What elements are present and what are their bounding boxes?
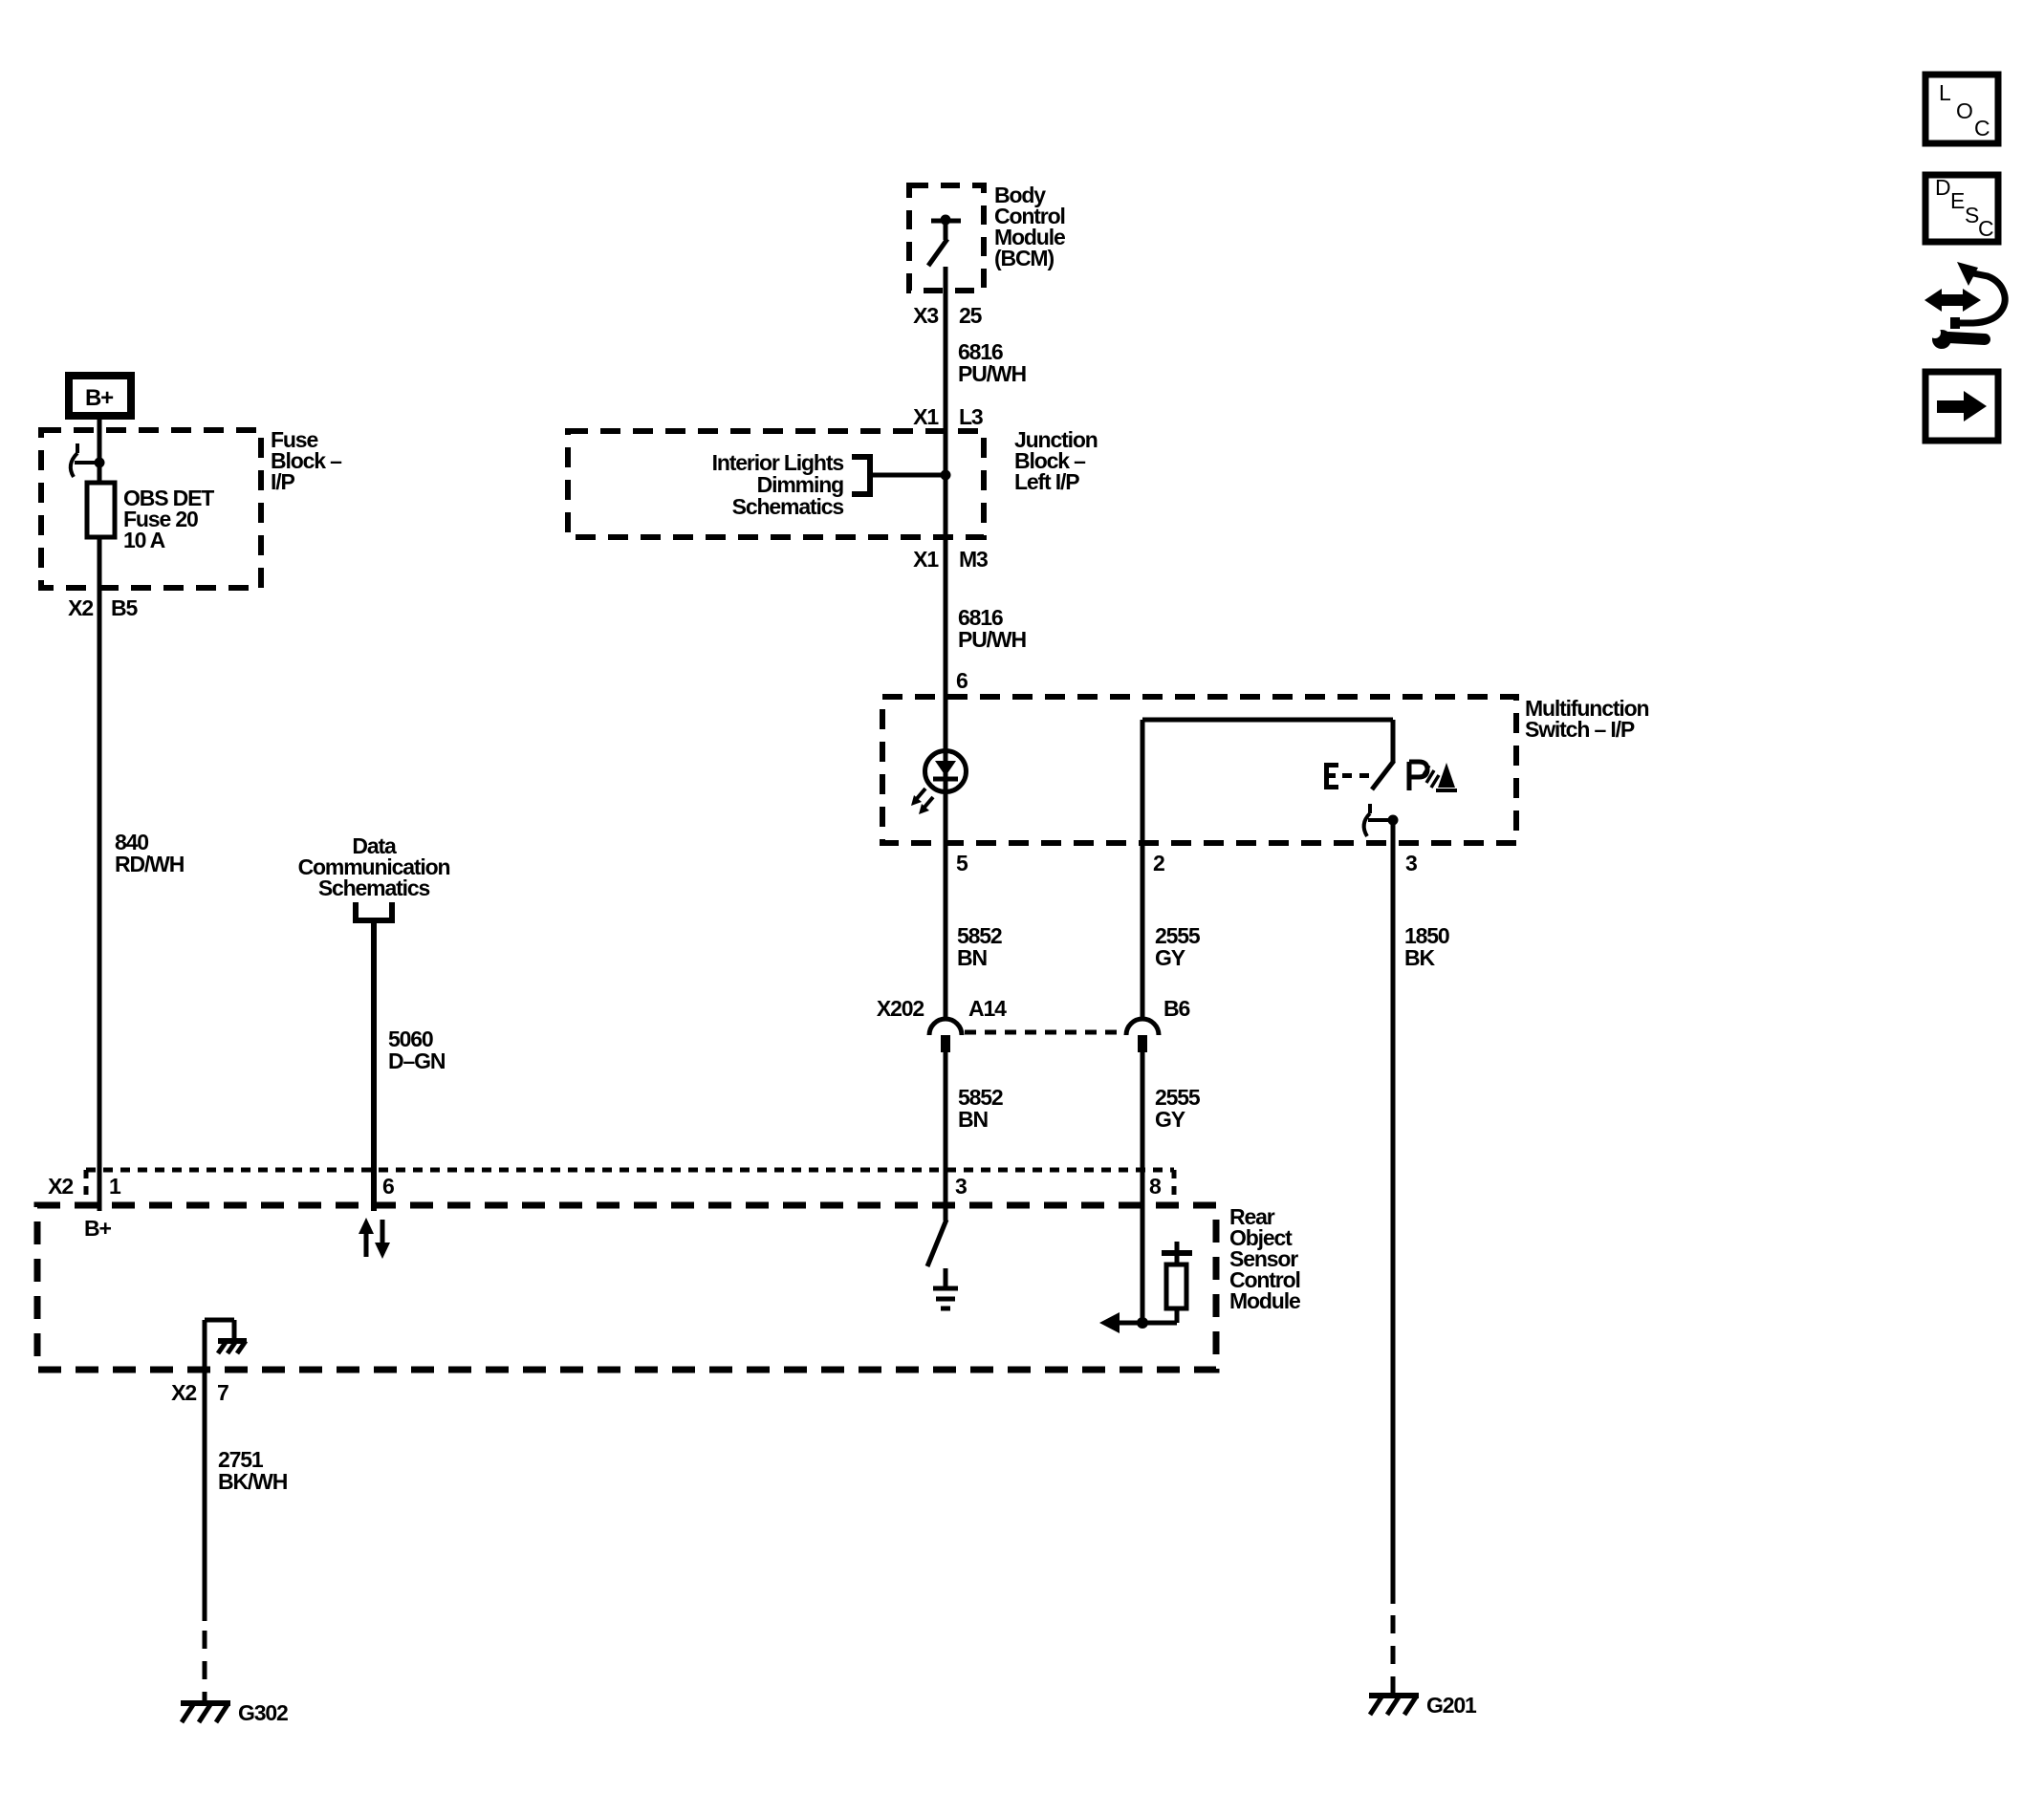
svg-text:B+: B+ bbox=[85, 385, 114, 411]
DESC icon box bbox=[1925, 175, 1998, 242]
wire 5852 BN upper bbox=[957, 923, 1002, 970]
svg-text:Schematics: Schematics bbox=[318, 875, 430, 900]
svg-text:Module: Module bbox=[1229, 1288, 1300, 1313]
svg-text:3: 3 bbox=[1405, 851, 1417, 875]
fuse block I/P dashed box bbox=[41, 427, 342, 588]
svg-text:PU/WH: PU/WH bbox=[958, 627, 1026, 652]
svg-text:5: 5 bbox=[956, 851, 968, 875]
wire 6816 PU/WH (junction block to multifunction switch) bbox=[958, 605, 1026, 652]
LED indicator inside multifunction switch bbox=[911, 751, 967, 815]
svg-text:X1: X1 bbox=[913, 404, 939, 429]
svg-text:BK: BK bbox=[1404, 945, 1435, 970]
ground G302 bbox=[181, 1700, 288, 1725]
svg-text:1: 1 bbox=[109, 1174, 121, 1199]
svg-text:BN: BN bbox=[958, 1107, 988, 1132]
multifunction switch I/P dashed box bbox=[882, 696, 1648, 843]
internal switch wiring of multifunction switch bbox=[1142, 720, 1393, 1019]
svg-text:A14: A14 bbox=[968, 996, 1007, 1021]
svg-text:B+: B+ bbox=[84, 1216, 111, 1241]
wire 2751 BK/WH bbox=[205, 1320, 288, 1621]
switch blade (park assist on/off) bbox=[1372, 761, 1394, 789]
LOC icon box bbox=[1925, 75, 1998, 143]
park assist P icon with sound waves and cone bbox=[1409, 762, 1457, 790]
svg-text:M3: M3 bbox=[959, 547, 988, 572]
svg-text:8: 8 bbox=[1149, 1174, 1162, 1199]
wrench icon bbox=[1929, 327, 1985, 349]
svg-text:Switch – I/P: Switch – I/P bbox=[1525, 717, 1635, 742]
svg-text:X3: X3 bbox=[913, 303, 938, 328]
switch fixed contact terminal bbox=[1364, 804, 1399, 836]
connector label X2 7 bbox=[171, 1380, 228, 1405]
svg-text:L3: L3 bbox=[959, 404, 983, 429]
switch E position label and dashes bbox=[1324, 763, 1369, 789]
svg-text:GY: GY bbox=[1155, 945, 1185, 970]
in-line connector X202 cavity A14 bbox=[929, 1019, 962, 1052]
svg-text:PU/WH: PU/WH bbox=[958, 361, 1026, 386]
svg-text:25: 25 bbox=[959, 303, 983, 328]
svg-text:6: 6 bbox=[956, 668, 968, 693]
svg-text:B5: B5 bbox=[111, 595, 138, 620]
wire from B+ to fuse bbox=[98, 420, 102, 483]
svg-text:I/P: I/P bbox=[271, 469, 294, 494]
connector X202 labels bbox=[877, 996, 1190, 1021]
svg-text:C: C bbox=[1978, 216, 1993, 241]
wire 2555 GY upper bbox=[1155, 923, 1201, 970]
chassis ground symbol inside rear module bbox=[205, 1320, 247, 1353]
connector label X2 B5 bbox=[68, 595, 138, 620]
svg-text:X2: X2 bbox=[171, 1380, 196, 1405]
svg-text:O: O bbox=[1956, 98, 1972, 123]
svg-text:E: E bbox=[1950, 188, 1965, 213]
data exchange icon double arrow bbox=[1924, 289, 1981, 312]
svg-text:G201: G201 bbox=[1426, 1693, 1477, 1718]
earth ground symbol inside rear module bbox=[933, 1288, 958, 1308]
rear object sensor control module dashed box bbox=[37, 1204, 1300, 1370]
svg-text:Schematics: Schematics bbox=[732, 494, 844, 519]
ground G201 bbox=[1369, 1693, 1477, 1718]
wire 840 RD/WH bbox=[99, 537, 185, 1211]
pin labels X3 25 bbox=[913, 303, 982, 328]
svg-text:B6: B6 bbox=[1163, 996, 1189, 1021]
svg-text:BN: BN bbox=[957, 945, 987, 970]
in-line connector X202 cavity B6 bbox=[1126, 1019, 1159, 1052]
data communication arrows at pin 6 bbox=[359, 1218, 390, 1259]
svg-text:L: L bbox=[1939, 80, 1951, 105]
pin labels X1 L3 bbox=[913, 404, 983, 429]
svg-text:C: C bbox=[1974, 116, 1990, 140]
dashed tie line between connector cavities bbox=[965, 1030, 1123, 1035]
interior lights dimming schematics reference bbox=[712, 450, 951, 519]
junction block left I/P dashed box bbox=[568, 427, 1098, 537]
wire 6816 PU/WH (BCM to junction block) bbox=[946, 267, 1026, 1019]
wire 5060 D-GN bbox=[374, 920, 446, 1211]
wire 2555 GY lower bbox=[1142, 1048, 1201, 1205]
svg-text:X2: X2 bbox=[48, 1174, 73, 1199]
body control module BCM dashed box bbox=[909, 183, 1065, 291]
svg-text:2: 2 bbox=[1153, 851, 1164, 875]
svg-text:7: 7 bbox=[217, 1380, 228, 1405]
power symbol B+ (battery feed box) bbox=[69, 376, 131, 416]
svg-text:6: 6 bbox=[382, 1174, 394, 1199]
internal switch to ground at pin 3 bbox=[927, 1205, 946, 1288]
svg-text:X2: X2 bbox=[68, 595, 93, 620]
wire 5852 BN lower bbox=[946, 1048, 1003, 1205]
wire 1850 BK bbox=[1393, 820, 1449, 1604]
connector X2 dotted boundary of rear module bbox=[48, 1170, 1174, 1203]
fuse block connector (female terminal at B5 feed) bbox=[71, 443, 105, 477]
dashed ground lead to G302 bbox=[203, 1631, 207, 1701]
forward navigation icon box bbox=[1925, 372, 1998, 441]
svg-text:D: D bbox=[1935, 175, 1950, 200]
svg-text:GY: GY bbox=[1155, 1107, 1185, 1132]
svg-text:RD/WH: RD/WH bbox=[115, 852, 185, 876]
svg-text:X202: X202 bbox=[877, 996, 924, 1021]
dashed ground lead to G201 bbox=[1391, 1615, 1396, 1694]
pin labels X1 M3 bbox=[913, 547, 988, 572]
resistor R inside rear module bbox=[1162, 1242, 1192, 1323]
svg-text:BK/WH: BK/WH bbox=[218, 1469, 288, 1494]
svg-text:Left I/P: Left I/P bbox=[1014, 469, 1079, 494]
data exchange icon outline arrow bbox=[1950, 262, 2005, 329]
fuse OBS DET Fuse 20 10A bbox=[87, 483, 214, 552]
svg-text:10 A: 10 A bbox=[123, 528, 165, 552]
pin labels 5 2 3 bbox=[956, 851, 1417, 875]
internal sensing circuit at pin 8 bbox=[1099, 1205, 1177, 1333]
BCM internal driver symbol bbox=[928, 215, 961, 267]
svg-text:G302: G302 bbox=[238, 1700, 288, 1725]
svg-text:S: S bbox=[1965, 203, 1979, 227]
pin labels 1 6 3 8 bbox=[109, 1174, 1162, 1199]
svg-text:(BCM): (BCM) bbox=[994, 246, 1054, 270]
svg-text:3: 3 bbox=[955, 1174, 967, 1199]
data communication schematics reference bbox=[298, 833, 450, 923]
svg-text:D–GN: D–GN bbox=[388, 1048, 446, 1073]
svg-text:X1: X1 bbox=[913, 547, 939, 572]
